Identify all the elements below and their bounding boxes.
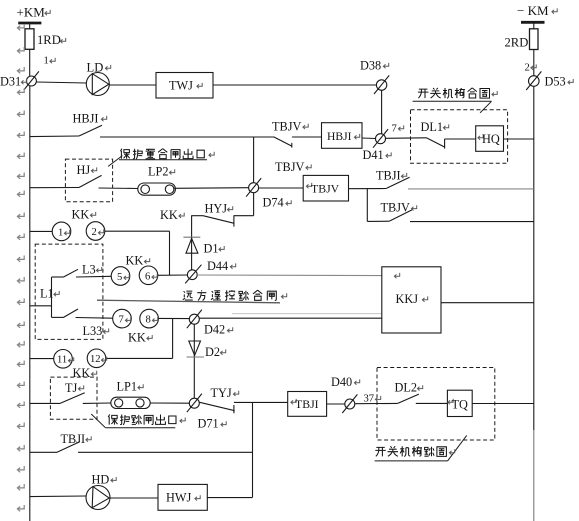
- contact TJ: [60, 393, 85, 404]
- wire left bus: [29, 86, 31, 521]
- wire KK 12 to vertical: [106, 357, 173, 359]
- wire D38 down to D41: [381, 90, 383, 133]
- wire TYJ to TBJI coil: [234, 401, 288, 403]
- svg-text:KK: KK: [128, 330, 146, 344]
- label HBJI contact: [73, 111, 107, 125]
- svg-text:D31: D31: [0, 74, 21, 88]
- label D40: [331, 375, 360, 389]
- wire D1 vertical top: [191, 215, 193, 270]
- label DL1: [421, 120, 449, 134]
- coil text HWJ: [166, 491, 200, 505]
- contact DL2: [398, 394, 419, 403]
- label D42: [204, 323, 233, 337]
- lamp LD: [86, 73, 109, 96]
- wire D74 to TBJV coil: [259, 187, 303, 189]
- svg-text:2RD: 2RD: [505, 36, 529, 50]
- node -KM supply bar: [521, 21, 545, 24]
- label KK a: [72, 207, 96, 221]
- label text close-coil (kai guan ji gou he quan): [418, 88, 497, 99]
- link LP2: [138, 183, 176, 195]
- label LP2: [148, 165, 175, 179]
- label text trip-exit (bao hu tiao zha chu kou): [108, 414, 185, 425]
- dashed box TJ: [50, 377, 97, 419]
- label node 1: [44, 56, 56, 67]
- svg-text:8: 8: [146, 315, 151, 326]
- contact L33: [52, 309, 79, 317]
- svg-text:6: 6: [145, 271, 150, 282]
- wire TQ to right bus: [472, 403, 534, 405]
- coil text HQ: [478, 132, 500, 146]
- wire row1 D31 to LD: [37, 82, 87, 83]
- dashed box DL1 HQ: [411, 110, 508, 164]
- svg-text:HQ: HQ: [482, 132, 500, 146]
- label pin 7: [392, 124, 404, 135]
- fuse 1RD: [25, 29, 34, 50]
- label D74: [263, 196, 292, 210]
- wire DL1 to HQ: [445, 138, 476, 140]
- node KK terminal 1: [52, 222, 71, 241]
- label TJ: [65, 381, 84, 395]
- svg-text:D1: D1: [204, 241, 219, 255]
- relay coil TBJI: [288, 392, 327, 417]
- dashed box HJ: [65, 159, 112, 202]
- wire L33 to KK 7: [76, 317, 113, 320]
- node D44 terminal: [185, 265, 201, 284]
- svg-text:TBJV: TBJV: [381, 201, 410, 215]
- link LP1: [111, 397, 150, 408]
- margin paragraph marks column: [17, 24, 24, 511]
- relay coil TWJ: [156, 73, 213, 99]
- contact TYJ: [200, 402, 235, 413]
- wire TBJV contact to HBJI coil: [292, 136, 321, 138]
- label D31: [0, 74, 27, 88]
- svg-text:1: 1: [58, 227, 63, 238]
- label 2RD: [505, 36, 529, 50]
- wire junction down row3b: [366, 189, 368, 222]
- label D53: [545, 75, 574, 89]
- svg-text:2: 2: [525, 63, 530, 74]
- wire KK 8 to D42: [158, 317, 189, 319]
- node D74 terminal: [246, 178, 261, 197]
- contact TBJI row3: [387, 177, 410, 188]
- contact HBJI: [79, 125, 102, 136]
- label HD: [92, 472, 117, 486]
- diode D2: [187, 341, 205, 357]
- contact L3: [52, 269, 79, 277]
- svg-text:HWJ: HWJ: [166, 491, 191, 505]
- svg-text:HJ: HJ: [77, 163, 91, 177]
- label KK c: [126, 254, 150, 268]
- label -KM: [517, 3, 557, 18]
- node D31 terminal: [24, 71, 39, 90]
- svg-text:HD: HD: [92, 472, 110, 486]
- coil text KKJ: [394, 273, 427, 306]
- lamp HD: [86, 486, 110, 510]
- node +KM supply bar: [18, 22, 41, 25]
- relay coil HWJ: [158, 484, 207, 510]
- contact HYJ: [203, 215, 234, 226]
- label D41: [363, 148, 392, 162]
- pin 11: [57, 355, 74, 366]
- leader trip-exit label: [91, 414, 175, 428]
- svg-text:1: 1: [44, 56, 49, 67]
- svg-text:D74: D74: [263, 196, 284, 210]
- wire TBJV contact to right bus: [410, 221, 534, 223]
- svg-text:1RD: 1RD: [37, 33, 61, 47]
- label D1: [204, 241, 225, 255]
- wire HYJ branch stub: [192, 215, 203, 217]
- label TBJI bottom: [61, 432, 92, 446]
- leader trip-coil label: [375, 435, 467, 461]
- pin 2: [92, 227, 104, 238]
- svg-text:LP1: LP1: [117, 380, 138, 394]
- wire HYJ to D74 vertical: [234, 193, 254, 216]
- contact TBJV row2: [274, 137, 292, 148]
- node KK terminal 8: [140, 309, 159, 328]
- wire vertical row4 to row5: [169, 231, 171, 275]
- svg-text:KK: KK: [160, 208, 178, 222]
- relay coil HBJI: [322, 123, 363, 149]
- label TBJV contact row2: [272, 119, 308, 133]
- svg-text:TBJI: TBJI: [376, 168, 401, 182]
- node D71 terminal: [187, 394, 202, 413]
- wire junction down to D74: [253, 137, 255, 183]
- dashed box L1: [35, 244, 103, 339]
- coil text TBJV: [306, 182, 339, 196]
- pin 7: [119, 315, 131, 326]
- label HJ: [77, 163, 97, 177]
- wire HBJI coil to D41: [362, 137, 375, 140]
- wire HJ to LP2: [99, 187, 139, 190]
- wire LD to TWJ: [109, 84, 156, 86]
- svg-text:37: 37: [364, 394, 375, 405]
- wire L1 vertical: [51, 277, 53, 317]
- label +KM: [17, 4, 51, 19]
- svg-text:2: 2: [92, 227, 97, 238]
- coil TQ: [447, 390, 472, 416]
- pin 12: [90, 354, 107, 365]
- pin 8: [146, 315, 158, 326]
- wire L1 bus stub: [30, 305, 52, 307]
- svg-text:LP2: LP2: [148, 165, 169, 179]
- svg-text:DL2: DL2: [395, 381, 418, 395]
- svg-text:+KM: +KM: [17, 4, 46, 19]
- svg-text:HBJI: HBJI: [73, 111, 99, 125]
- label text remote trip-close (yuan fang yao kong tiao he zha): [183, 290, 287, 300]
- wire TBJI coil to D40: [327, 403, 345, 405]
- svg-text:HYJ: HYJ: [205, 202, 228, 216]
- svg-text:L3: L3: [82, 262, 96, 276]
- wire TWJ to D38: [213, 84, 376, 86]
- svg-text:TWJ: TWJ: [169, 79, 193, 93]
- pin 5: [117, 272, 129, 283]
- coil text TBJI: [291, 397, 319, 411]
- wire HQ to right bus: [504, 138, 534, 140]
- contact TBJV row3b: [390, 210, 412, 221]
- node KK terminal 5: [111, 267, 130, 286]
- node D40 terminal: [342, 394, 357, 413]
- svg-text:DL1: DL1: [421, 120, 444, 134]
- wire D42 to KKJ: [200, 317, 382, 319]
- svg-text:D2: D2: [205, 345, 220, 359]
- svg-text:TBJV: TBJV: [311, 182, 340, 196]
- label DL2: [395, 381, 423, 395]
- wire KKJ to right bus: [441, 302, 534, 304]
- label L33: [83, 324, 109, 338]
- svg-text:D41: D41: [363, 148, 384, 162]
- relay coil KKJ: [382, 267, 441, 333]
- wire remote line to KKJ: [97, 300, 382, 313]
- svg-text:TBJI: TBJI: [295, 397, 319, 411]
- svg-text:TBJV: TBJV: [275, 160, 304, 174]
- svg-text:TBJV: TBJV: [272, 119, 301, 133]
- node KK terminal 12: [87, 349, 106, 368]
- svg-text:L33: L33: [83, 324, 103, 338]
- node KK terminal 11: [54, 350, 73, 369]
- coil HQ: [476, 126, 504, 152]
- label D71: [198, 417, 227, 431]
- label TBJI row3: [376, 168, 407, 182]
- node D53 terminal: [526, 71, 541, 90]
- node KK terminal 6: [139, 266, 158, 285]
- wire HBJI to junction: [100, 136, 275, 138]
- wire row10 bus to TBJI contact: [30, 451, 57, 453]
- svg-text:HBJI: HBJI: [327, 130, 352, 143]
- svg-text:L1: L1: [40, 286, 54, 300]
- wire LP2 to D74: [174, 187, 248, 190]
- label KK d: [128, 330, 152, 344]
- label node 2: [525, 63, 537, 74]
- wire HD to HWJ: [110, 497, 158, 499]
- contact TBJI bottom: [57, 442, 80, 453]
- node KK terminal 7: [113, 309, 132, 328]
- label LP1: [117, 380, 144, 394]
- wire TBJI contact right: [78, 451, 253, 453]
- svg-text:TJ: TJ: [65, 381, 78, 395]
- label text reclose-exit (bao hu zhong he zha chu kou): [120, 149, 214, 160]
- contact DL1: [426, 138, 445, 149]
- label D38: [360, 59, 389, 73]
- CJK labels drawn as vector glyphs: [108, 88, 497, 457]
- label D2: [205, 345, 226, 359]
- wire D44 to KKJ: [197, 274, 382, 277]
- svg-text:D71: D71: [198, 417, 219, 431]
- wire LP1 to D71: [150, 402, 189, 404]
- wire TBJV coil to TBJI contact: [349, 188, 387, 190]
- wire KK 6 to D44: [158, 274, 188, 276]
- label 1RD: [37, 33, 66, 47]
- wire D40 to DL2: [355, 402, 398, 404]
- pin 1: [58, 227, 70, 238]
- label HYJ: [205, 202, 233, 216]
- svg-text:TBJI: TBJI: [61, 432, 86, 446]
- wire vertical to bottom rows: [252, 402, 254, 497]
- svg-text:KK: KK: [126, 254, 144, 268]
- label D44: [207, 259, 236, 273]
- wire row2 bus to HBJI contact: [30, 135, 79, 138]
- diode D1: [183, 237, 200, 253]
- svg-text:KK: KK: [73, 366, 91, 380]
- label LD: [87, 61, 111, 75]
- wire row4 bus to KK 1: [30, 230, 52, 232]
- wire D2 vertical top: [193, 324, 195, 398]
- label TBJV above box: [275, 160, 311, 174]
- wire from +KM bar to fuse 1RD: [29, 24, 31, 77]
- svg-text:7: 7: [392, 124, 397, 135]
- svg-text:TYJ: TYJ: [211, 386, 232, 400]
- dashed box DL2 TQ: [377, 368, 495, 441]
- wire D41 to DL1: [386, 137, 427, 140]
- leader reclose label: [108, 156, 207, 167]
- svg-text:D53: D53: [545, 75, 566, 89]
- pin 6: [145, 271, 157, 282]
- wire right bus: [533, 87, 535, 521]
- coil text TQ: [448, 398, 468, 412]
- label TYJ: [211, 386, 239, 400]
- svg-text:D40: D40: [331, 375, 352, 389]
- wire TBJI contact to right bus: [408, 188, 534, 190]
- node KK terminal 2: [86, 222, 105, 241]
- wire TJ to LP1: [83, 402, 111, 404]
- label KK e: [73, 366, 97, 380]
- svg-text:D38: D38: [360, 59, 381, 73]
- label TWJ: [169, 79, 202, 93]
- wire row3b to TBJV contact: [367, 220, 389, 222]
- node D38 terminal: [374, 75, 389, 94]
- label pin 37: [364, 394, 381, 405]
- svg-text:5: 5: [117, 272, 122, 283]
- svg-text:LD: LD: [87, 61, 104, 75]
- label text trip-coil (kai guan ji gou tiao quan): [375, 446, 454, 457]
- svg-text:TQ: TQ: [452, 398, 469, 412]
- label L3: [82, 262, 102, 276]
- relay coil TBJV: [303, 175, 348, 201]
- svg-text:12: 12: [90, 354, 101, 365]
- label KK b: [160, 208, 184, 222]
- label L1: [40, 286, 59, 300]
- leader close-coil label: [413, 101, 492, 113]
- wire DL2 to TQ: [416, 402, 448, 404]
- wire row11 bus to HD: [30, 495, 86, 498]
- node D42 terminal: [187, 310, 202, 329]
- wire L3 to KK 5: [76, 275, 111, 278]
- svg-text:KKJ: KKJ: [396, 292, 419, 306]
- svg-text:11: 11: [57, 355, 67, 366]
- svg-text:KK: KK: [72, 207, 90, 221]
- wire row9 bus to TJ: [30, 402, 60, 404]
- svg-text:7: 7: [119, 315, 124, 326]
- node D41 terminal: [373, 129, 388, 148]
- wire from -KM bar to fuse 2RD: [533, 23, 535, 76]
- wire KK 2 to vertical: [105, 230, 170, 232]
- svg-text:D44: D44: [207, 259, 228, 273]
- svg-text:D42: D42: [204, 323, 225, 337]
- coil text TWJ-box HBJI: [327, 130, 360, 143]
- wire HWJ to vertical: [207, 497, 252, 499]
- contact HJ: [79, 175, 102, 187]
- svg-text:− KM: − KM: [517, 3, 549, 18]
- wire vertical rows 7-8 to 11-12: [172, 318, 174, 358]
- fuse 2RD: [530, 29, 539, 50]
- wire row8 bus to KK 11: [30, 358, 54, 360]
- label TBJV row3b: [381, 201, 417, 215]
- wire row3 bus to HJ contact: [30, 187, 79, 189]
